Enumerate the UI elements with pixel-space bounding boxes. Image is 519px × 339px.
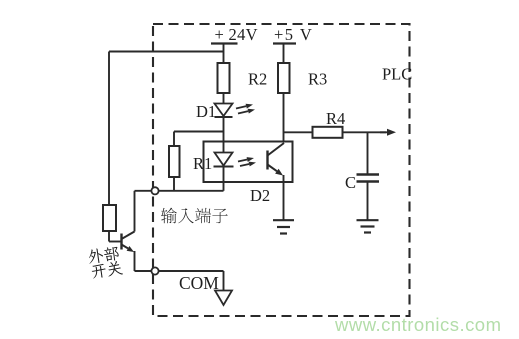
ground (emitter of D2) — [273, 220, 294, 233]
svg-text:D2: D2 — [250, 186, 270, 205]
svg-text:D1: D1 — [196, 102, 216, 121]
wire R4 to output arrow — [343, 131, 387, 133]
wire switch emitter to COM terminal — [134, 251, 136, 271]
svg-text:C: C — [345, 173, 356, 192]
resistor R4 — [313, 127, 343, 138]
wire COM terminal to COM symbol — [159, 270, 224, 272]
wire emitter to ground — [283, 175, 285, 220]
external switch series resistor — [103, 205, 116, 231]
svg-text:R3: R3 — [308, 70, 327, 89]
wire +24V bar to R2 — [223, 44, 225, 64]
ground (capacitor) — [357, 220, 379, 232]
wire collector node to R4 — [284, 131, 313, 133]
PLC enclosure (dashed boundary) — [153, 24, 410, 316]
label 输入端子 — [161, 208, 228, 224]
wire external switch rail (vertical) — [108, 52, 110, 206]
wire node D1/R1 (horizontal) — [174, 131, 224, 133]
svg-text:R4: R4 — [326, 109, 345, 128]
LED of optocoupler — [214, 153, 234, 167]
wire D1 cathode down into optocoupler — [223, 117, 225, 152]
LED light arrows inside optocoupler — [238, 157, 256, 166]
svg-text:R2: R2 — [248, 70, 267, 89]
optocoupler box — [204, 142, 293, 183]
wire +5V bar to R3 — [283, 44, 285, 64]
resistor R1 — [169, 146, 180, 177]
capacitor C — [357, 175, 380, 182]
phototransistor D2 — [268, 143, 285, 176]
wire R3 to collector node (vertical) — [283, 93, 285, 143]
COM symbol (open triangle) — [215, 291, 232, 306]
input terminal node (circle) — [151, 187, 158, 194]
supply +5V rail bar — [273, 42, 296, 44]
wire +24V rail to external switch (horizontal) — [109, 51, 224, 53]
label 外部开关 — [88, 245, 124, 279]
external switch (transistor symbol) — [122, 232, 135, 253]
wire R4 node to capacitor — [367, 132, 369, 173]
resistor R2 — [218, 63, 230, 93]
output arrow — [380, 129, 396, 136]
LED light arrows of D1 — [236, 104, 255, 114]
wire capacitor to ground — [367, 182, 369, 221]
wire R1 bottom lead — [173, 177, 175, 191]
wire resistor to switch base — [108, 231, 110, 242]
diode D1 (LED) — [215, 104, 233, 118]
wire R1 top lead — [173, 132, 175, 147]
resistor R3 — [278, 63, 290, 93]
svg-text:www.cntronics.com: www.cntronics.com — [334, 314, 501, 335]
supply +24V rail bar — [211, 42, 238, 44]
svg-text:COM: COM — [179, 273, 219, 293]
svg-text:PLC: PLC — [382, 65, 412, 84]
wire R2 to D1 — [223, 93, 225, 103]
wire switch collector to input terminal — [134, 191, 136, 232]
svg-text:+5 V: +5 V — [274, 25, 313, 44]
wire opto LED cathode to input terminal wire — [223, 167, 225, 191]
COM terminal node (circle) — [151, 267, 158, 274]
svg-text:+ 24V: + 24V — [215, 25, 258, 44]
